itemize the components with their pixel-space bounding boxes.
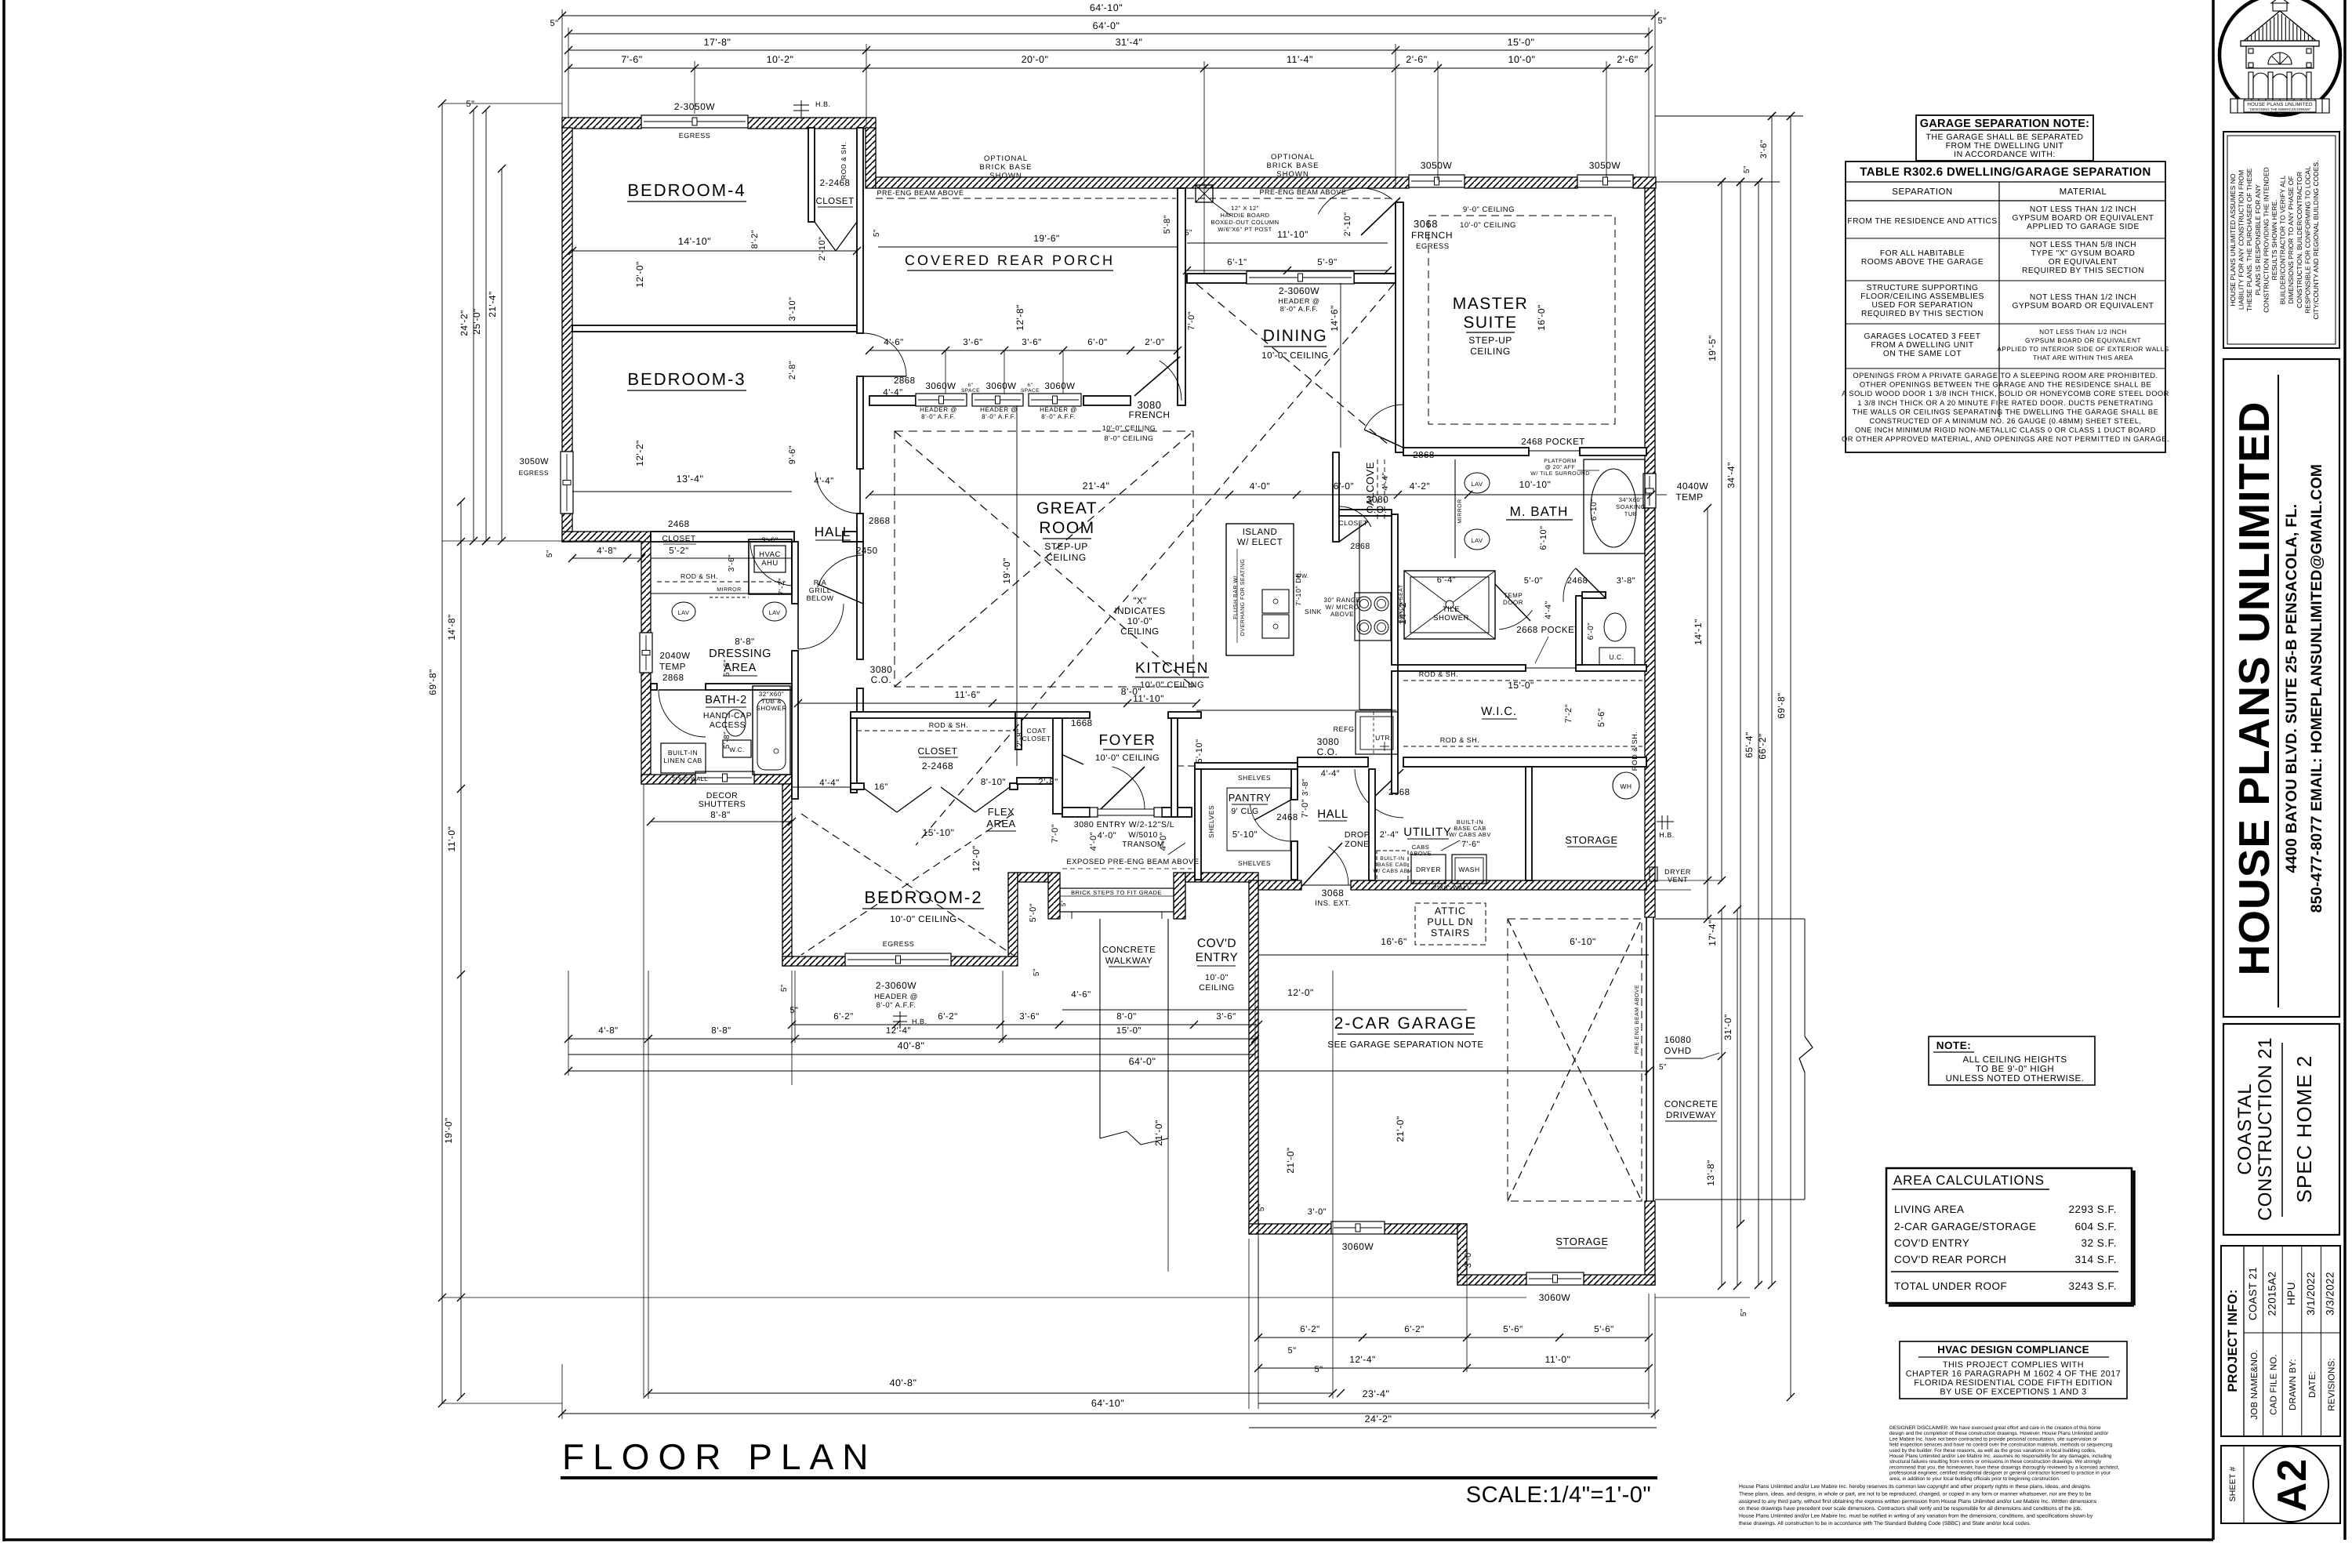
svg-text:64'-10": 64'-10" bbox=[1091, 1398, 1124, 1409]
svg-text:3050W: 3050W bbox=[1421, 160, 1453, 171]
svg-text:UTILITY: UTILITY bbox=[1403, 826, 1451, 839]
svg-text:CEILING: CEILING bbox=[1470, 346, 1511, 357]
svg-text:FLUSH BAR W/: FLUSH BAR W/ bbox=[1232, 575, 1239, 619]
svg-text:DRYER: DRYER bbox=[1664, 868, 1691, 876]
svg-text:2'-0": 2'-0" bbox=[1145, 338, 1164, 347]
svg-text:3050W: 3050W bbox=[1589, 160, 1621, 171]
svg-text:SHOWN: SHOWN bbox=[1276, 170, 1308, 179]
int wall: foyer east bbox=[1171, 718, 1178, 817]
svg-text:6'-0": 6'-0" bbox=[1587, 622, 1595, 640]
svg-text:40'-8": 40'-8" bbox=[898, 1040, 925, 1051]
svg-text:RESPONSIBLE FOR CONFORMING TO: RESPONSIBLE FOR CONFORMING TO LOCAL bbox=[2303, 166, 2311, 314]
svg-text:6'-1": 6'-1" bbox=[1227, 258, 1247, 267]
disclaimer box bbox=[2223, 132, 2339, 348]
svg-text:CEILING: CEILING bbox=[1120, 627, 1160, 637]
svg-text:10'-0" CEILING: 10'-0" CEILING bbox=[890, 915, 957, 924]
svg-text:2-3060W: 2-3060W bbox=[876, 980, 916, 991]
svg-text:STORAGE: STORAGE bbox=[1565, 834, 1618, 846]
svg-text:House Plans Unlimited and/or L: House Plans Unlimited and/or Lee Mabire … bbox=[1739, 1484, 2092, 1490]
door 3068 ins ext garage bbox=[1301, 884, 1351, 886]
svg-text:These plans, ideas, and design: These plans, ideas, and designs, in whol… bbox=[1739, 1491, 2091, 1497]
svg-text:HVAC DESIGN COMPLIANCE: HVAC DESIGN COMPLIANCE bbox=[1937, 1344, 2089, 1356]
svg-text:HOUSE PLANS UNLIMITED: HOUSE PLANS UNLIMITED bbox=[2247, 102, 2313, 107]
svg-text:EGRESS: EGRESS bbox=[679, 132, 711, 140]
svg-text:5": 5" bbox=[1033, 968, 1041, 976]
svg-text:W/ MICRO: W/ MICRO bbox=[1326, 604, 1359, 611]
svg-text:8'-0": 8'-0" bbox=[1121, 686, 1142, 697]
svg-text:AREA: AREA bbox=[986, 818, 1015, 829]
svg-text:BY USE OF EXCEPTIONS 1 AND 3: BY USE OF EXCEPTIONS 1 AND 3 bbox=[1940, 1388, 2086, 1397]
svg-text:2040W: 2040W bbox=[660, 652, 691, 661]
ext wall: garage north bbox=[1258, 880, 1301, 890]
svg-text:AREA CALCULATIONS: AREA CALCULATIONS bbox=[1893, 1173, 2045, 1188]
svg-text:9'-6": 9'-6" bbox=[788, 445, 797, 464]
svg-text:SINK: SINK bbox=[1305, 608, 1322, 615]
svg-text:2668 POCKET: 2668 POCKET bbox=[1516, 626, 1581, 635]
svg-text:8'-0" A.F.F.: 8'-0" A.F.F. bbox=[1280, 305, 1318, 313]
svg-text:5": 5" bbox=[780, 984, 789, 992]
ext wall: left (bedrooms) bbox=[562, 128, 572, 452]
int wall: dressing/bath2 divider bbox=[651, 684, 657, 690]
svg-text:5'-2": 5'-2" bbox=[669, 546, 688, 556]
svg-text:3060W: 3060W bbox=[1539, 1292, 1571, 1303]
svg-text:TOTAL UNDER ROOF: TOTAL UNDER ROOF bbox=[1894, 1280, 2007, 1292]
foyer/hall dims bbox=[798, 702, 1196, 704]
dryer/washer bbox=[1411, 855, 1446, 884]
svg-text:PULL DN: PULL DN bbox=[1427, 916, 1473, 927]
svg-text:GYPSUM BOARD OR EQUIVALENT: GYPSUM BOARD OR EQUIVALENT bbox=[2025, 337, 2141, 344]
svg-text:CONCRETE: CONCRETE bbox=[1664, 1100, 1719, 1109]
water heater bbox=[1613, 772, 1639, 799]
svg-text:SHOWER: SHOWER bbox=[1433, 614, 1469, 622]
window 3060W garage bbox=[1331, 1221, 1385, 1234]
svg-text:ROOMS ABOVE THE GARAGE: ROOMS ABOVE THE GARAGE bbox=[1861, 258, 1984, 267]
window 4040W temp bbox=[1643, 474, 1656, 508]
svg-text:2868: 2868 bbox=[1413, 451, 1435, 460]
svg-text:NOT LESS THAN 1/2 INCH: NOT LESS THAN 1/2 INCH bbox=[2030, 205, 2136, 214]
svg-text:SUITE: SUITE bbox=[1463, 314, 1517, 332]
svg-text:H.B.: H.B. bbox=[1659, 831, 1675, 839]
svg-text:ABOVE: ABOVE bbox=[1410, 850, 1432, 857]
svg-text:FROM THE RESIDENCE AND ATTICS: FROM THE RESIDENCE AND ATTICS bbox=[1847, 217, 1997, 226]
svg-text:2'-4": 2'-4" bbox=[1380, 830, 1399, 840]
svg-text:10'-0" CEILING: 10'-0" CEILING bbox=[1140, 681, 1204, 690]
svg-text:TILE: TILE bbox=[1443, 605, 1460, 614]
svg-text:850-477-8077 EMAIL: HOMEPLANSU: 850-477-8077 EMAIL: HOMEPLANSUNLIMITED@G… bbox=[2308, 464, 2325, 913]
garage overhead door opening 16080 bbox=[1646, 917, 1647, 1201]
svg-text:H.B.: H.B. bbox=[912, 1018, 927, 1025]
svg-text:BUILDER/CONTRACTOR TO VERIFY A: BUILDER/CONTRACTOR TO VERIFY ALL bbox=[2279, 175, 2287, 304]
svg-text:EGRESS: EGRESS bbox=[1416, 242, 1450, 251]
svg-text:DW.: DW. bbox=[1297, 572, 1309, 579]
svg-text:CITY/COUNTY AND REGIONAL BUILD: CITY/COUNTY AND REGIONAL BUILDING CODES. bbox=[2312, 161, 2320, 320]
note box bbox=[1929, 1036, 2095, 1085]
svg-text:13'-4": 13'-4" bbox=[677, 474, 704, 485]
svg-text:W.I.C.: W.I.C. bbox=[1481, 705, 1517, 718]
svg-text:SHELVES: SHELVES bbox=[1238, 859, 1271, 867]
ext wall: right mid bbox=[1645, 508, 1655, 917]
svg-text:ONE INCH MINIMUM RIGID NON-MET: ONE INCH MINIMUM RIGID NON-METALLIC CLAS… bbox=[1855, 426, 2156, 434]
area calculations box bbox=[1886, 1168, 2132, 1303]
svg-text:EGRESS: EGRESS bbox=[883, 940, 915, 948]
svg-text:12'-0": 12'-0" bbox=[1287, 987, 1314, 998]
svg-text:1 3/8 INCH THICK OR A 20 MINUT: 1 3/8 INCH THICK OR A 20 MINUTE FIRE RAT… bbox=[1857, 399, 2154, 407]
svg-text:W/5010: W/5010 bbox=[1128, 831, 1157, 840]
svg-text:7'-2": 7'-2" bbox=[778, 578, 786, 595]
svg-text:@ 20" AFF: @ 20" AFF bbox=[1545, 464, 1576, 470]
svg-text:2-2468: 2-2468 bbox=[922, 760, 953, 771]
svg-text:4'-8": 4'-8" bbox=[597, 546, 616, 556]
svg-text:69'-8": 69'-8" bbox=[427, 669, 438, 695]
svg-text:3'-6": 3'-6" bbox=[728, 554, 736, 572]
svg-text:3'-8": 3'-8" bbox=[1301, 779, 1310, 796]
svg-text:LIVING AREA: LIVING AREA bbox=[1894, 1203, 1965, 1215]
door 2868 utility bbox=[1355, 769, 1403, 818]
dressing vanity + lavs bbox=[651, 593, 792, 594]
svg-text:40'-8": 40'-8" bbox=[890, 1377, 917, 1388]
svg-text:6'-2": 6'-2" bbox=[833, 1012, 853, 1022]
svg-text:HALL: HALL bbox=[1317, 808, 1348, 821]
svg-text:recommend that you, the homeow: recommend that you, the homeowner, have … bbox=[1889, 1465, 2120, 1470]
svg-text:KITCHEN: KITCHEN bbox=[1135, 660, 1209, 677]
svg-text:area, in addition to your loca: area, in addition to your local building… bbox=[1889, 1476, 2060, 1482]
wic rods bbox=[1403, 680, 1642, 681]
svg-text:LIABILITY FOR ANY CONSTRUCTION: LIABILITY FOR ANY CONSTRUCTION FROM bbox=[2238, 170, 2245, 310]
svg-text:2'-8": 2'-8" bbox=[1015, 728, 1025, 746]
svg-text:5": 5" bbox=[550, 19, 558, 28]
svg-text:604 S.F.: 604 S.F. bbox=[2074, 1221, 2117, 1232]
svg-text:SOAKING: SOAKING bbox=[1616, 503, 1646, 510]
svg-text:11'-4": 11'-4" bbox=[1287, 54, 1313, 65]
svg-text:VENT: VENT bbox=[1668, 876, 1688, 884]
int wall: bed2 closet west bbox=[851, 718, 857, 793]
svg-text:DRESSING: DRESSING bbox=[709, 648, 771, 660]
svg-text:IN ACCORDANCE WITH:: IN ACCORDANCE WITH: bbox=[1954, 150, 2056, 159]
svg-text:3'-8": 3'-8" bbox=[1617, 576, 1635, 586]
left small dims hall/dressing bbox=[572, 557, 641, 559]
svg-text:TYPE "X" GYSUM BOARD: TYPE "X" GYSUM BOARD bbox=[2031, 249, 2136, 258]
int wall: utility north bbox=[1298, 757, 1368, 767]
svg-text:TO BE 9'-0" HIGH: TO BE 9'-0" HIGH bbox=[1976, 1065, 2054, 1074]
svg-text:MATERIAL: MATERIAL bbox=[2060, 187, 2107, 197]
svg-text:ROOM: ROOM bbox=[1039, 519, 1094, 537]
svg-text:FLOOR PLAN: FLOOR PLAN bbox=[562, 1436, 877, 1477]
svg-text:10'-2": 10'-2" bbox=[767, 54, 794, 65]
svg-text:4'-4": 4'-4" bbox=[1381, 472, 1390, 490]
built-in linen cab bbox=[661, 743, 706, 773]
svg-text:19'-5": 19'-5" bbox=[1707, 335, 1718, 361]
svg-text:8'-0" A.F.F.: 8'-0" A.F.F. bbox=[982, 413, 1016, 420]
svg-text:SHOWN: SHOWN bbox=[989, 172, 1022, 180]
wc room bbox=[1576, 596, 1582, 665]
svg-text:3'-0": 3'-0" bbox=[1464, 1249, 1473, 1268]
svg-text:3060W: 3060W bbox=[1045, 382, 1076, 391]
ext wall: front segment w bbox=[1018, 873, 1048, 882]
master ceiling dashed box bbox=[1428, 216, 1615, 424]
svg-text:5": 5" bbox=[1657, 16, 1666, 26]
svg-text:EGRESS: EGRESS bbox=[519, 469, 549, 477]
svg-text:GARAGES LOCATED 3 FEET: GARAGES LOCATED 3 FEET bbox=[1864, 332, 1981, 341]
top-right connector dims bbox=[1655, 115, 1803, 117]
svg-text:professional engineer, certifi: professional engineer, certified residen… bbox=[1889, 1471, 2111, 1476]
coat closet bbox=[1015, 718, 1022, 750]
bath2 tub bbox=[753, 686, 790, 775]
svg-text:13'-8": 13'-8" bbox=[1705, 1160, 1716, 1186]
svg-text:TRANSOM: TRANSOM bbox=[1122, 840, 1164, 849]
svg-text:3'-6": 3'-6" bbox=[761, 536, 778, 545]
ext wall: storage bottom bbox=[1457, 1275, 1526, 1285]
svg-text:3'-6": 3'-6" bbox=[963, 338, 982, 347]
svg-text:design and the completion of t: design and the completion of these const… bbox=[1889, 1431, 2109, 1436]
svg-text:House Plans Unlimited and/or L: House Plans Unlimited and/or Lee Mabire … bbox=[1739, 1514, 2093, 1519]
window 2-3060W bedroom-2 egress bbox=[845, 953, 951, 966]
svg-text:ROD & SH.: ROD & SH. bbox=[681, 572, 718, 580]
window 2-3050W bedroom-4 bbox=[641, 115, 748, 128]
svg-text:TEMP: TEMP bbox=[1675, 492, 1703, 503]
svg-text:CLOSET: CLOSET bbox=[1338, 519, 1367, 527]
svg-text:BUILT-IN: BUILT-IN bbox=[668, 749, 698, 757]
svg-text:HOUSE PLANS UNLIMITED: HOUSE PLANS UNLIMITED bbox=[2230, 401, 2278, 976]
svg-text:JOB NAME&NO.: JOB NAME&NO. bbox=[2250, 1349, 2259, 1419]
svg-text:19'-0": 19'-0" bbox=[443, 1117, 454, 1144]
svg-text:HOUSE PLANS UNLIMITED ASSUMES: HOUSE PLANS UNLIMITED ASSUMES NO bbox=[2229, 173, 2237, 306]
island bbox=[1226, 524, 1294, 655]
bed2 closet rod bbox=[857, 730, 1015, 731]
svg-text:3243 S.F.: 3243 S.F. bbox=[2068, 1280, 2117, 1292]
svg-text:STAIRS: STAIRS bbox=[1431, 927, 1470, 938]
svg-text:REQUIRED BY THIS SECTION: REQUIRED BY THIS SECTION bbox=[2022, 267, 2144, 275]
svg-text:PANTRY: PANTRY bbox=[1229, 792, 1272, 804]
right vertical dims bbox=[1721, 182, 1722, 880]
svg-text:COAST 21: COAST 21 bbox=[2247, 1267, 2259, 1320]
svg-text:A2: A2 bbox=[2270, 1458, 2315, 1512]
svg-text:6'-0": 6'-0" bbox=[1334, 481, 1354, 492]
garage separation note header box bbox=[1916, 115, 2093, 161]
svg-text:AHU: AHU bbox=[761, 559, 779, 568]
svg-text:structural failures resulting: structural failures resulting from error… bbox=[1889, 1459, 2102, 1465]
svg-text:6'-0": 6'-0" bbox=[1087, 338, 1107, 347]
svg-text:10'-0": 10'-0" bbox=[1508, 54, 1536, 65]
flex/bed2 dashed diagonals bbox=[801, 814, 1013, 955]
svg-text:BOXED-OUT COLUMN: BOXED-OUT COLUMN bbox=[1210, 219, 1279, 226]
int wall: bed4/bed3 divider bbox=[572, 325, 857, 332]
ext wall: bedroom-2 bottom bbox=[782, 956, 845, 966]
svg-text:8'-8": 8'-8" bbox=[711, 1026, 731, 1036]
svg-text:5'-10": 5'-10" bbox=[1232, 830, 1258, 840]
svg-text:2450: 2450 bbox=[856, 546, 878, 556]
svg-text:5": 5" bbox=[1743, 165, 1751, 173]
range bbox=[1355, 593, 1391, 641]
svg-text:W.C.: W.C. bbox=[729, 746, 744, 753]
svg-text:5'-0": 5'-0" bbox=[1524, 576, 1543, 586]
svg-text:4'-4": 4'-4" bbox=[1321, 769, 1340, 779]
int wall: bed2 closet top bbox=[851, 712, 1015, 718]
ext wall: right upper (master) bbox=[1645, 188, 1655, 474]
svg-text:OPTIONAL: OPTIONAL bbox=[1271, 153, 1315, 162]
svg-text:3080 ENTRY W/2-12"S/L: 3080 ENTRY W/2-12"S/L bbox=[1074, 820, 1174, 829]
bath2 toilet bbox=[725, 710, 746, 736]
svg-text:TEMP: TEMP bbox=[659, 662, 686, 672]
svg-text:2'-8": 2'-8" bbox=[1038, 778, 1058, 787]
svg-text:BELOW: BELOW bbox=[806, 594, 833, 602]
svg-text:HEADER @: HEADER @ bbox=[1040, 406, 1077, 413]
svg-text:17'-4": 17'-4" bbox=[1707, 920, 1718, 946]
window 3050W egress left bbox=[561, 452, 573, 514]
svg-text:9'-0" CEILING: 9'-0" CEILING bbox=[1463, 205, 1515, 214]
svg-text:8'-0" CEILING: 8'-0" CEILING bbox=[1105, 434, 1154, 442]
ext wall: bedroom-4 right stub bbox=[866, 128, 876, 188]
svg-text:INS. EXT.: INS. EXT. bbox=[1315, 899, 1351, 908]
svg-text:APPLIED TO GARAGE SIDE: APPLIED TO GARAGE SIDE bbox=[2027, 223, 2140, 231]
svg-text:C.O.: C.O. bbox=[871, 674, 892, 685]
hose bibb top bbox=[800, 100, 802, 119]
svg-text:19'-6": 19'-6" bbox=[1033, 233, 1060, 244]
ext wall: bed3 bottom step bbox=[562, 532, 651, 542]
svg-text:5": 5" bbox=[1185, 229, 1192, 238]
svg-text:7'-0": 7'-0" bbox=[1301, 799, 1310, 818]
svg-text:16080: 16080 bbox=[1664, 1036, 1691, 1045]
ext wall: bath-2 bottom bbox=[641, 775, 695, 784]
svg-text:LAV: LAV bbox=[1471, 481, 1483, 488]
svg-text:W/ CABS ABV: W/ CABS ABV bbox=[1449, 831, 1491, 838]
svg-text:6'-2": 6'-2" bbox=[938, 1012, 957, 1022]
svg-text:5": 5" bbox=[546, 550, 554, 557]
svg-text:PLANS IS RESPONSIBLE FOR ANY: PLANS IS RESPONSIBLE FOR ANY bbox=[2254, 184, 2262, 296]
svg-text:2868: 2868 bbox=[662, 673, 684, 683]
ext wall: dressing left bbox=[641, 542, 651, 633]
svg-text:3080: 3080 bbox=[1317, 736, 1340, 747]
svg-text:24'-2": 24'-2" bbox=[1365, 1414, 1392, 1425]
svg-text:5'-6": 5'-6" bbox=[723, 659, 731, 677]
svg-text:5'-8": 5'-8" bbox=[723, 731, 731, 749]
svg-text:64'-0": 64'-0" bbox=[1093, 20, 1120, 31]
svg-text:20'-0": 20'-0" bbox=[1022, 54, 1049, 65]
svg-text:C.O.: C.O. bbox=[1367, 504, 1388, 515]
svg-text:5'-10": 5'-10" bbox=[1195, 739, 1204, 763]
svg-text:5": 5" bbox=[789, 1006, 798, 1015]
ext wall: garage bottom bbox=[1249, 1224, 1331, 1234]
svg-text:ATTIC: ATTIC bbox=[1435, 906, 1466, 916]
door 3080 french porch bbox=[1134, 357, 1180, 396]
svg-text:5": 5" bbox=[1060, 900, 1067, 906]
svg-text:LAV: LAV bbox=[768, 609, 780, 616]
top dimension rows bbox=[562, 15, 1655, 16]
svg-text:3060W: 3060W bbox=[986, 382, 1017, 391]
svg-text:3'-6": 3'-6" bbox=[1216, 1012, 1236, 1022]
window w/ decor shutters bath-2 bbox=[695, 771, 754, 784]
svg-text:4'-0": 4'-0" bbox=[1089, 832, 1098, 851]
tile shower bbox=[1404, 571, 1495, 639]
svg-text:5'-6": 5'-6" bbox=[1594, 1325, 1613, 1334]
svg-text:CEILING: CEILING bbox=[1046, 552, 1087, 563]
svg-text:RESULTS SHOWN HERE.: RESULTS SHOWN HERE. bbox=[2270, 200, 2278, 281]
hvac closet bbox=[749, 539, 792, 594]
svg-text:WASH: WASH bbox=[1458, 866, 1479, 873]
svg-text:10'-0" CEILING: 10'-0" CEILING bbox=[1460, 221, 1516, 230]
svg-text:LINEN CAB: LINEN CAB bbox=[663, 757, 702, 764]
svg-text:OPTIONAL: OPTIONAL bbox=[984, 154, 1028, 163]
svg-text:SHOWER: SHOWER bbox=[757, 705, 787, 712]
dryer vent bbox=[1650, 867, 1657, 881]
hardie board column bbox=[1196, 185, 1213, 202]
svg-text:REQUIRED BY THIS SECTION: REQUIRED BY THIS SECTION bbox=[1861, 310, 1984, 318]
svg-text:DIMENSIONS PRIOR TO ANY PHASE: DIMENSIONS PRIOR TO ANY PHASE OF bbox=[2287, 176, 2295, 303]
svg-text:BUILT-IN: BUILT-IN bbox=[1380, 856, 1404, 862]
svg-text:2868: 2868 bbox=[1350, 542, 1370, 551]
svg-text:32 S.F.: 32 S.F. bbox=[2081, 1237, 2117, 1249]
svg-text:on these drawings have precede: on these drawings have precedent over sc… bbox=[1739, 1506, 2082, 1512]
svg-text:STORAGE: STORAGE bbox=[1555, 1236, 1609, 1247]
svg-text:3068: 3068 bbox=[1414, 218, 1438, 230]
svg-text:7'-2": 7'-2" bbox=[1564, 704, 1573, 723]
svg-text:"X": "X" bbox=[1133, 597, 1146, 606]
svg-text:19'-0": 19'-0" bbox=[1001, 557, 1012, 584]
svg-text:12'-4": 12'-4" bbox=[886, 1026, 911, 1036]
svg-text:2"X6" WALL: 2"X6" WALL bbox=[1433, 884, 1472, 891]
svg-text:C.O.: C.O. bbox=[1317, 746, 1338, 757]
svg-text:CLOSET: CLOSET bbox=[662, 535, 695, 543]
svg-text:GRILL: GRILL bbox=[809, 586, 832, 594]
svg-text:11'-6": 11'-6" bbox=[955, 689, 981, 700]
pre-eng beam above porch bbox=[876, 198, 1176, 199]
svg-text:EXPOSED PRE-ENG BEAM ABOVE: EXPOSED PRE-ENG BEAM ABOVE bbox=[1066, 858, 1199, 866]
svg-text:2'-10": 2'-10" bbox=[818, 236, 827, 260]
kitchen east wall bbox=[1392, 514, 1398, 665]
svg-text:OR EQUIVALENT: OR EQUIVALENT bbox=[2049, 258, 2118, 267]
svg-text:NOT LESS THAN 5/8 INCH: NOT LESS THAN 5/8 INCH bbox=[2030, 241, 2136, 249]
svg-text:6": 6" bbox=[968, 383, 974, 388]
svg-text:12'-0": 12'-0" bbox=[634, 261, 645, 288]
svg-text:4'-8": 4'-8" bbox=[598, 1026, 618, 1036]
svg-text:6'-4": 6'-4" bbox=[1437, 575, 1456, 585]
int wall: hall east / great room west bbox=[857, 542, 863, 659]
svg-text:SPEC HOME 2: SPEC HOME 2 bbox=[2292, 1055, 2316, 1203]
wic north wall + pocket bbox=[1398, 665, 1526, 671]
svg-text:15'-0": 15'-0" bbox=[1508, 37, 1535, 48]
svg-text:COV'D: COV'D bbox=[1197, 937, 1236, 950]
svg-text:31'-0": 31'-0" bbox=[1722, 1014, 1733, 1040]
left vertical dims bbox=[441, 103, 443, 1403]
dining north wall bbox=[1187, 274, 1247, 283]
svg-text:23'-4": 23'-4" bbox=[1363, 1388, 1390, 1399]
door 2468 pantry bbox=[1250, 805, 1291, 842]
svg-text:3068: 3068 bbox=[1322, 887, 1345, 898]
svg-text:U.C.: U.C. bbox=[1610, 653, 1624, 661]
page border bottom bbox=[4, 1538, 2213, 1541]
svg-text:BEDROOM-4: BEDROOM-4 bbox=[627, 180, 746, 200]
bed4 closet bbox=[808, 128, 815, 222]
svg-text:SHELVES: SHELVES bbox=[1238, 774, 1271, 782]
great room long dim row bbox=[869, 494, 1651, 495]
svg-text:8'-10": 8'-10" bbox=[981, 778, 1006, 787]
door 3068 french master bbox=[1361, 198, 1400, 235]
svg-text:HPU: HPU bbox=[2285, 1282, 2297, 1305]
svg-text:4'-0": 4'-0" bbox=[1159, 832, 1168, 851]
svg-text:11'-0": 11'-0" bbox=[1545, 1354, 1571, 1365]
svg-text:TABLE R302.6 DWELLING/GARAGE S: TABLE R302.6 DWELLING/GARAGE SEPARATION bbox=[1860, 165, 2151, 179]
svg-text:21'-4": 21'-4" bbox=[1083, 481, 1110, 492]
svg-text:PRE-ENG BEAM ABOVE: PRE-ENG BEAM ABOVE bbox=[877, 189, 964, 197]
garage area dims bbox=[1258, 954, 1649, 956]
svg-text:2-CAR GARAGE/STORAGE: 2-CAR GARAGE/STORAGE bbox=[1894, 1221, 2037, 1232]
svg-text:3'-10": 3'-10" bbox=[788, 296, 797, 321]
svg-text:7'-6": 7'-6" bbox=[1461, 840, 1479, 849]
svg-text:21'-0": 21'-0" bbox=[1395, 1116, 1406, 1142]
mbath vanity bbox=[1454, 459, 1456, 558]
page border right bbox=[2343, 0, 2347, 1540]
svg-text:11'-0": 11'-0" bbox=[446, 826, 457, 852]
svg-text:APPLIED TO INTERIOR SIDE OF EX: APPLIED TO INTERIOR SIDE OF EXTERIOR WAL… bbox=[1997, 346, 2169, 353]
